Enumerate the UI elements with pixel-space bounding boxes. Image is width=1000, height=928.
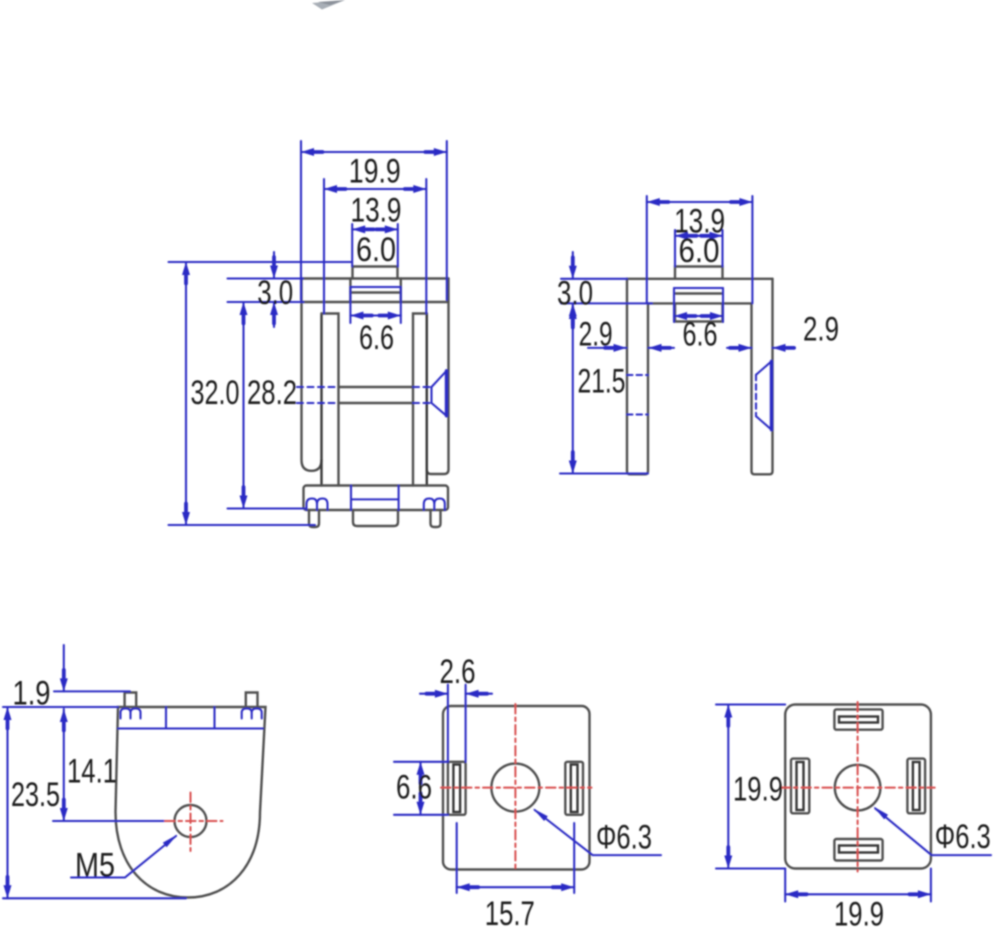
dim 28.2 ext line bottom bbox=[228, 507, 306, 509]
dim 2.9 left arrows bbox=[588, 347, 674, 349]
bottom view centerline horizontal bbox=[780, 787, 934, 789]
top view: right slot outer bbox=[565, 762, 583, 815]
left leg hidden hole dashes bbox=[627, 375, 648, 415]
dim 6.0 ext lines bbox=[675, 230, 723, 267]
profile right pin hidden arches bbox=[242, 709, 262, 719]
M5 centerline horizontal bbox=[165, 820, 223, 822]
front view: band section left edge bbox=[349, 279, 351, 303]
profile: right pin bbox=[246, 693, 258, 708]
bottom view: bottom slot inner bbox=[839, 846, 878, 853]
hidden hole dashed lines bbox=[297, 387, 432, 403]
svg-text:M5: M5 bbox=[75, 847, 115, 885]
dim 14.1 ext line bbox=[53, 820, 168, 822]
top view: left slot outer bbox=[448, 762, 466, 815]
front view: middle bar top bbox=[339, 386, 414, 388]
dim 19.9 line bbox=[301, 151, 447, 153]
profile hidden flange line bbox=[118, 727, 263, 729]
dim 3.0 ext lines bbox=[561, 279, 652, 304]
front view: band bottom line bbox=[302, 301, 449, 303]
svg-text:15.7: 15.7 bbox=[485, 895, 535, 928]
svg-text:Φ6.3: Φ6.3 bbox=[935, 818, 991, 856]
svg-text:1.9: 1.9 bbox=[13, 675, 51, 713]
side view: bridge bottom bbox=[648, 302, 752, 304]
dim 15.7 ext lines bbox=[457, 823, 575, 893]
front view: center tab below flange bbox=[353, 510, 398, 526]
front view: bottom flange bbox=[304, 486, 449, 511]
dim 6.6 ext lines bbox=[350, 287, 400, 323]
front view: band section step line bbox=[350, 291, 400, 293]
watermark logo triangle (top edge) bbox=[312, 0, 345, 10]
side view: hanging section bbox=[675, 303, 723, 321]
dim 3.0 arrows bbox=[572, 252, 574, 329]
dim 13.9 ext lines bbox=[647, 196, 753, 303]
front view: left pin bbox=[309, 510, 319, 527]
dim 21.5 line bbox=[572, 306, 574, 474]
dim 14.1 line bbox=[63, 709, 65, 821]
dim 13.9 line bbox=[647, 201, 753, 203]
dim 13.9 ext lines bbox=[324, 179, 426, 314]
svg-text:6.6: 6.6 bbox=[359, 319, 394, 357]
front view: left slot U bbox=[302, 279, 322, 471]
dim 6.6 line bbox=[674, 315, 723, 317]
dim 15.7 line bbox=[457, 886, 575, 888]
svg-text:6.0: 6.0 bbox=[679, 232, 720, 270]
front view: right slot U bbox=[427, 279, 449, 475]
svg-text:14.1: 14.1 bbox=[67, 753, 117, 791]
svg-text:19.9: 19.9 bbox=[349, 153, 401, 191]
dim 6.6 line bbox=[419, 762, 421, 815]
front view: right plate edge bbox=[426, 314, 428, 486]
bottom view: left slot outer bbox=[791, 759, 809, 814]
side view: section step line bbox=[675, 292, 723, 294]
top view centerline vertical bbox=[514, 704, 516, 872]
bottom view: top slot inner bbox=[839, 717, 878, 723]
profile: left pin bbox=[125, 693, 137, 708]
dim 3.0 arrows bbox=[273, 252, 275, 327]
bottom view: body bbox=[785, 705, 931, 869]
profile: body outline bbox=[116, 707, 266, 898]
top view: center hole bbox=[491, 764, 539, 812]
front view: band section right edge bbox=[400, 279, 402, 303]
left pin hidden m bbox=[307, 499, 328, 511]
dim 1.9 arrow bbox=[63, 645, 65, 691]
dim 6.0 line bbox=[352, 228, 398, 230]
front view: window top-right corner bbox=[413, 314, 427, 486]
bottom view centerline vertical bbox=[857, 702, 859, 872]
dim 6.6 line bbox=[350, 314, 400, 316]
bottom view: center hole bbox=[835, 765, 881, 811]
svg-text:23.5: 23.5 bbox=[11, 776, 60, 814]
bottom view: top slot outer bbox=[834, 709, 882, 729]
top view centerline horizontal bbox=[441, 787, 592, 789]
dim 6.0 ext lines bbox=[352, 224, 398, 267]
side view: bridge top bbox=[627, 278, 773, 280]
svg-text:19.9: 19.9 bbox=[733, 771, 783, 809]
dim 6.6 connector bbox=[674, 287, 723, 289]
dim 6.0 line bbox=[675, 235, 723, 237]
side view: left leg bbox=[627, 279, 648, 475]
front view: top tab bbox=[353, 267, 398, 279]
front view: middle bar bottom bbox=[339, 402, 414, 404]
svg-text:21.5: 21.5 bbox=[578, 363, 626, 401]
side view: top tab bbox=[675, 267, 723, 279]
dim 2.6 ext lines bbox=[448, 685, 466, 762]
dim 2.9 right arrows bbox=[727, 347, 795, 349]
side countersink funnel bbox=[770, 361, 773, 429]
dim 6.6 ext lines bbox=[674, 288, 723, 322]
bottom view: left slot inner bbox=[797, 762, 804, 810]
dim 21.5 bottom ext bbox=[560, 472, 648, 474]
right pin hidden m bbox=[424, 499, 445, 511]
front view: left plate edge bbox=[320, 314, 322, 486]
bottom view: right slot inner bbox=[913, 762, 920, 810]
svg-text:6.6: 6.6 bbox=[396, 769, 432, 807]
svg-text:32.0: 32.0 bbox=[191, 374, 240, 412]
M5 centerline vertical bbox=[190, 793, 192, 852]
svg-text:2.6: 2.6 bbox=[440, 653, 476, 691]
dim 1.9 ext line bbox=[54, 690, 130, 692]
dim 6.6 ext lines bbox=[394, 762, 448, 815]
svg-text:3.0: 3.0 bbox=[557, 275, 593, 313]
front view: window top-left corner bbox=[322, 314, 339, 486]
side view: right leg bbox=[752, 279, 773, 475]
countersink funnel bbox=[445, 371, 448, 416]
svg-text:13.9: 13.9 bbox=[351, 191, 402, 229]
leader dia 6.3 bbox=[535, 810, 661, 855]
dim 19.9 bottom ext lines bbox=[785, 869, 931, 902]
front view: right pin bbox=[431, 510, 441, 527]
top view: body bbox=[443, 706, 590, 870]
dim 19.9 left ext lines bbox=[716, 705, 785, 869]
dim 3.0 ext lines bbox=[228, 279, 304, 303]
dim 19.9 ext lines bbox=[301, 141, 447, 300]
profile hidden edges bbox=[166, 707, 215, 729]
svg-text:28.2: 28.2 bbox=[247, 374, 297, 412]
dim 23.5 line bbox=[6, 707, 8, 898]
front view: body top edge bbox=[302, 277, 449, 279]
dim 23.5 ext lines bbox=[3, 707, 186, 898]
flange hidden edges bbox=[351, 486, 399, 511]
top view: right slot inner bbox=[571, 765, 578, 813]
dim 28.2 line bbox=[242, 302, 244, 509]
svg-text:Φ6.3: Φ6.3 bbox=[596, 819, 652, 857]
dim 13.9 line bbox=[324, 188, 426, 190]
svg-text:19.9: 19.9 bbox=[834, 896, 884, 928]
svg-text:6.6: 6.6 bbox=[683, 316, 718, 354]
M5 leader bbox=[71, 836, 176, 878]
dim 32.0 ext lines bbox=[169, 262, 353, 525]
top view: left slot inner bbox=[453, 765, 460, 813]
svg-text:2.9: 2.9 bbox=[803, 311, 839, 349]
leader dia 6.3 bbox=[875, 808, 991, 855]
dim 19.9 left line bbox=[727, 705, 729, 869]
dim 32.0 line bbox=[185, 262, 187, 525]
dim 6.6 connector bbox=[350, 286, 400, 288]
bottom view: right slot outer bbox=[907, 759, 925, 814]
svg-text:3.0: 3.0 bbox=[257, 274, 293, 312]
bottom view: bottom slot outer bbox=[834, 839, 882, 861]
profile left pin hidden arches bbox=[121, 709, 141, 719]
svg-text:6.0: 6.0 bbox=[356, 231, 396, 269]
dim 19.9 bottom line bbox=[785, 893, 931, 895]
svg-text:2.9: 2.9 bbox=[579, 316, 613, 354]
dim 2.6 arrows bbox=[420, 693, 492, 695]
profile: M5 hole bbox=[175, 805, 207, 837]
